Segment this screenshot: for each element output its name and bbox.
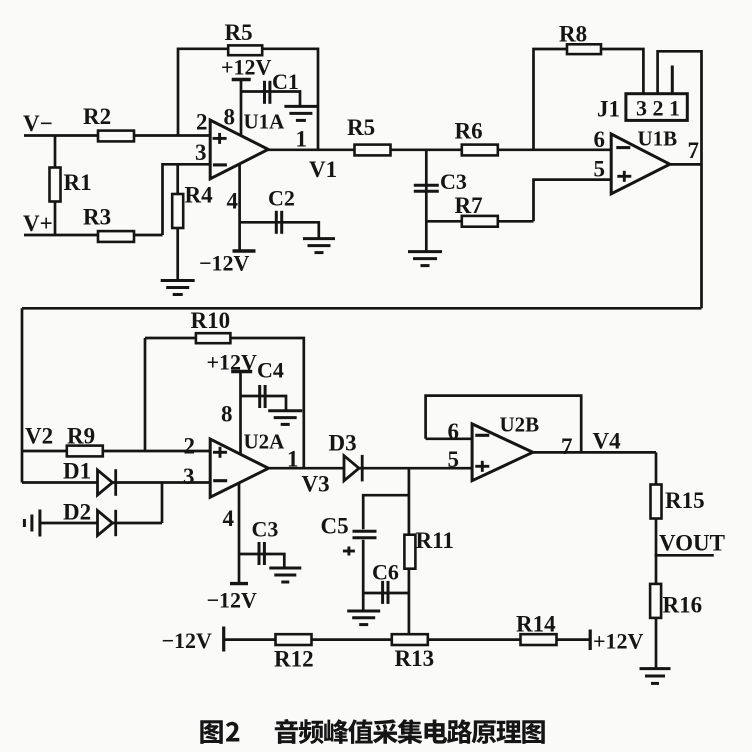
svg-text:1: 1 [287,447,299,472]
svg-text:R4: R4 [185,183,214,208]
power +12V U1A [232,78,251,81]
wire R5 feedback loop [178,49,318,150]
power +12V U2A [231,370,252,373]
wire C3b branch to ground [239,554,284,568]
wire C3 branch to ground [425,150,428,252]
wire C5 top branch [363,495,409,529]
wire V4 to R15 R16 ground [655,452,658,668]
svg-text:U1B: U1B [638,127,678,151]
capacitor C3 [414,185,439,191]
wire +12V to U2A pin8 [239,372,242,456]
wire C6 [363,592,409,595]
minus input U1A [213,163,227,166]
resistor R4 [172,194,183,228]
plus input U1B [617,171,631,182]
svg-text:1: 1 [296,127,308,152]
svg-text:−12V: −12V [199,251,250,276]
plus polarity C5 [343,547,355,556]
wire C2 branch to ground [240,222,319,238]
wire left rail to V2 [21,308,24,482]
wire V3 to U2B pin5 [268,467,472,470]
svg-text:C6: C6 [372,560,399,585]
resistor R6 [462,145,498,156]
capacitor C6 [383,581,388,604]
power -12V U2A [230,582,248,585]
svg-text:V2: V2 [25,424,53,449]
svg-text:C5: C5 [321,514,349,539]
svg-text:R5: R5 [347,115,375,140]
wire R10 feedback loop [145,338,304,468]
minus input U2A [213,479,227,482]
minus input U1B [616,146,630,149]
svg-text:R2: R2 [83,104,111,129]
resistor R10 [196,333,231,343]
capacitor C2 [276,211,281,234]
diode D3 [344,455,362,482]
connector J1 [626,94,687,121]
svg-text:7: 7 [688,138,700,163]
svg-text:3: 3 [195,140,207,165]
svg-text:U2B: U2B [500,413,540,437]
svg-text:+12V: +12V [207,350,258,375]
svg-text:R5: R5 [225,20,253,45]
ground R16 ground [640,669,671,684]
capacitor C4 [260,385,265,408]
capacitor C3 second [259,542,264,565]
svg-text:J1: J1 [597,97,620,122]
svg-text:5: 5 [448,447,460,472]
op-amp U1B [611,134,670,194]
svg-text:D1: D1 [63,459,91,484]
capacitor C5 [353,531,377,538]
resistor R1 [50,168,61,202]
caption 图2 音频峰值采集电路原理图 [200,719,545,744]
svg-text:8: 8 [221,402,233,427]
svg-text:7: 7 [561,434,573,459]
wire V- input to U1A pin2 [24,134,210,137]
resistor R3 [98,231,134,242]
svg-text:C4: C4 [257,358,284,383]
ground C1 ground [284,106,317,120]
wire U2B feedback loop [426,396,582,453]
svg-text:C2: C2 [268,186,295,211]
resistor R9 [67,446,103,457]
svg-text:R9: R9 [67,424,95,449]
svg-text:C1: C1 [272,69,299,94]
wire C5 to ground [362,540,365,611]
svg-text:R14: R14 [516,612,556,637]
svg-text:−12V: −12V [162,628,213,653]
wire R1 branch [54,136,57,236]
wire R10 feedback riser [144,338,147,451]
ground R4 ground [161,281,195,295]
wire U2B pin6 [426,437,473,440]
resistor R2 [98,131,134,142]
svg-text:3: 3 [183,464,195,489]
plus input U2B [475,461,489,472]
svg-text:R3: R3 [83,205,111,230]
wire R8 feedback loop [534,49,644,150]
svg-text:C3: C3 [440,169,467,194]
svg-text:4: 4 [227,189,239,214]
svg-text:−12V: −12V [207,588,258,613]
terminal +12V [589,630,592,651]
svg-text:2: 2 [196,110,208,135]
op-amp U1A [210,120,268,179]
svg-text:R15: R15 [665,488,705,513]
svg-text:V1: V1 [309,157,337,182]
resistor R13 [392,634,428,645]
wire R3 to U1A pin3 [163,164,211,235]
wire J1 pin2 to right rail [658,51,702,308]
ground C3b ground [269,568,301,582]
wire U1A pin4 to -12V [238,163,241,251]
ground C4 ground [268,411,302,425]
resistor R5 series [355,145,391,156]
resistor R5 feedback [228,45,262,55]
svg-text:R6: R6 [455,119,483,144]
svg-text:U1A: U1A [244,110,286,134]
capacitor C1 [265,81,270,104]
svg-text:6: 6 [448,419,460,444]
svg-text:5: 5 [594,157,606,182]
wire V+ input [24,234,163,237]
svg-text:U2A: U2A [244,430,286,454]
svg-text:D3: D3 [329,431,357,456]
resistor R11 [404,535,415,569]
svg-text:R10: R10 [191,308,231,333]
ground C3 ground [408,252,442,266]
svg-text:8: 8 [224,105,236,130]
terminal -12V [222,627,225,652]
svg-text:V4: V4 [593,429,622,454]
resistor R14 [521,634,557,645]
wire VOUT stub [655,554,714,557]
ground C2 ground [303,239,335,253]
wire U1B pin7 output [670,163,702,166]
svg-text:C3: C3 [252,517,279,542]
svg-text:D2: D2 [63,500,91,525]
svg-text:R7: R7 [455,193,483,218]
wire D2 riser [161,483,164,524]
wire D1 to U2A pin3 [22,481,210,484]
svg-text:V−: V− [23,111,53,136]
svg-text:R16: R16 [663,593,703,618]
wire R7 [426,220,533,223]
wire V2 to U2A pin2 [22,450,210,453]
ground D2 input [24,510,40,537]
diode D2 [98,510,116,536]
wire R11 branch [408,468,411,639]
wire J1 pin1 stub [671,66,674,95]
svg-text:V3: V3 [302,472,330,497]
wire C1 branch to ground [241,92,300,107]
svg-text:R13: R13 [395,646,435,671]
wire bottom rail -12V to +12V [224,638,591,641]
resistor R16 [650,584,661,618]
wire U2A pin4 to -12V [238,483,241,584]
resistor R12 [276,634,312,645]
op-amp U2B [472,424,533,481]
svg-text:2: 2 [184,434,196,459]
wire R7 to U1B pin5 [534,180,612,222]
minus input U2B [475,434,489,437]
svg-text:R8: R8 [559,22,587,47]
svg-text:+12V: +12V [593,629,644,654]
wire R4 to ground [176,164,179,281]
svg-text:V+: V+ [23,211,53,236]
svg-text:+12V: +12V [221,55,272,80]
plus input U2A [213,447,227,458]
svg-text:6: 6 [594,127,606,152]
resistor R8 [567,44,601,54]
resistor R7 [462,216,498,227]
svg-text:R11: R11 [416,528,454,553]
wire +12V to U1A pin8 [240,80,243,137]
wire V1 output to U1B pin6 [268,148,611,151]
ground C5 ground [347,611,380,625]
op-amp U2A [210,439,268,497]
wire interstage across page [22,307,702,310]
plus input U1A [213,133,227,144]
resistor R15 [651,485,662,519]
wire C4 branch to ground [241,396,287,411]
svg-text:3 2 1: 3 2 1 [636,96,680,121]
wire D2 [41,522,163,525]
diode D1 [98,469,116,496]
svg-text:R1: R1 [64,170,92,195]
power -12V U1A [233,249,256,252]
svg-text:4: 4 [223,506,235,531]
wire V4 output [533,451,656,454]
svg-text:R12: R12 [274,647,314,672]
svg-text:VOUT: VOUT [659,531,725,556]
